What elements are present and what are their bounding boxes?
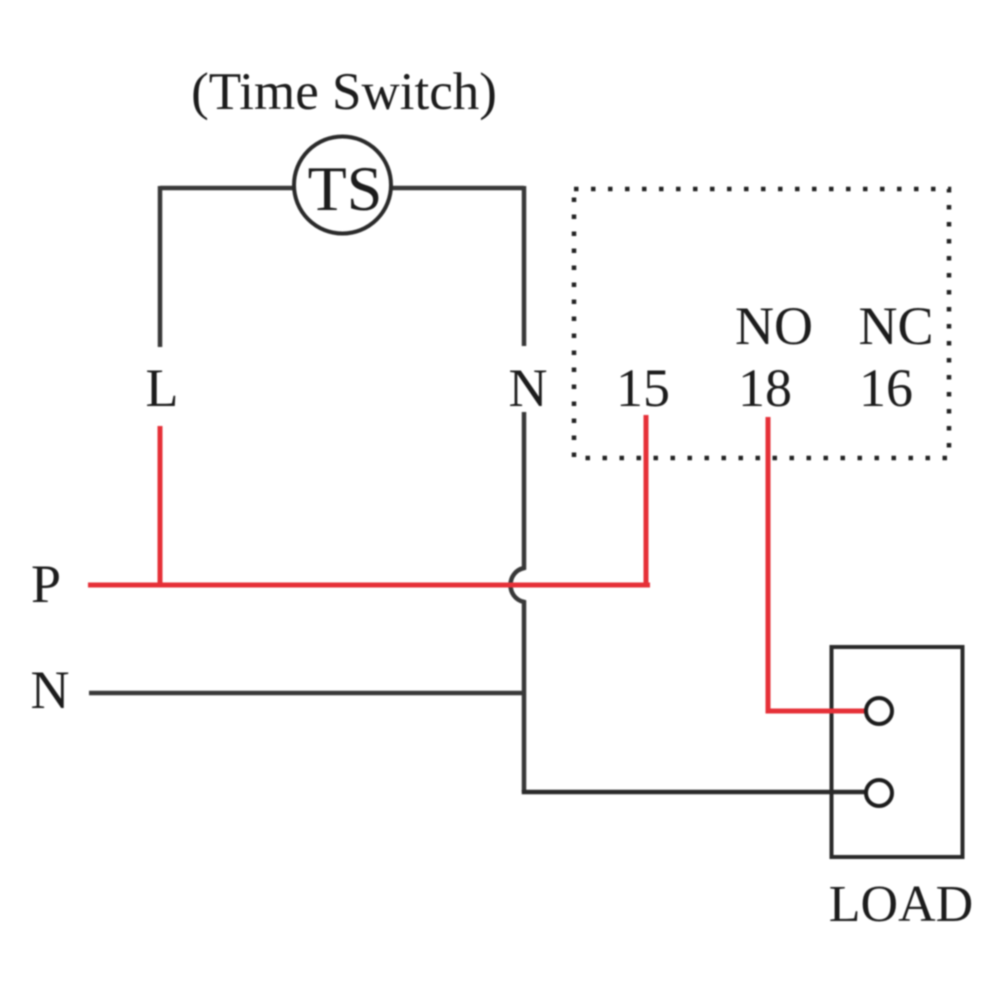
wire red P line xyxy=(88,583,650,588)
svg-text:15: 15 xyxy=(616,358,670,418)
svg-text:16: 16 xyxy=(859,358,913,418)
svg-text:L: L xyxy=(146,358,179,418)
wire TS left horizontal xyxy=(160,186,294,191)
svg-text:TS: TS xyxy=(308,153,383,224)
svg-text:18: 18 xyxy=(738,358,792,418)
wire N supply horizontal xyxy=(89,691,524,696)
wire right vertical to N xyxy=(522,186,527,346)
svg-text:(Time Switch): (Time Switch) xyxy=(191,63,497,121)
wire red riser to 15 xyxy=(644,415,649,587)
time switch TS circle xyxy=(294,137,391,234)
svg-text:NO: NO xyxy=(735,296,813,356)
wire red L drop xyxy=(158,426,163,585)
svg-text:N: N xyxy=(509,358,548,418)
relay dotted box xyxy=(574,189,949,458)
wire TS right horizontal xyxy=(391,186,524,191)
wire N vertical with hop over P line xyxy=(511,412,525,792)
wire left vertical to L xyxy=(158,186,163,347)
svg-text:LOAD: LOAD xyxy=(829,876,973,933)
load terminal top xyxy=(866,698,892,724)
svg-text:NC: NC xyxy=(858,296,933,356)
load box xyxy=(832,647,963,857)
load terminal bottom xyxy=(866,780,892,806)
wire N bottom to load xyxy=(524,790,866,792)
wire red 18 to load xyxy=(768,417,866,711)
svg-text:P: P xyxy=(31,554,61,614)
svg-text:N: N xyxy=(31,660,70,720)
